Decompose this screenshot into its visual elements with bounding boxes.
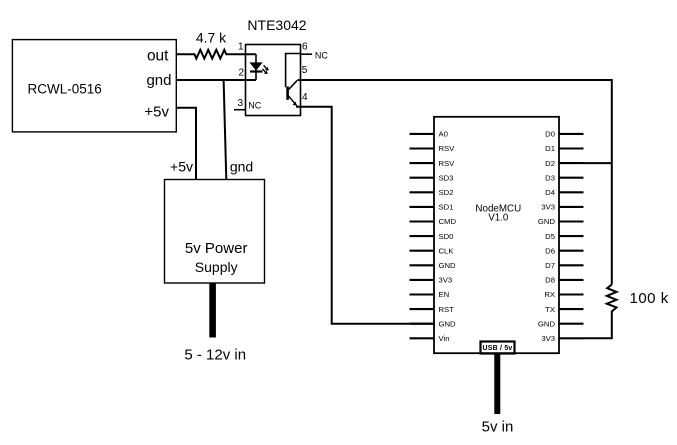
svg-text:CLK: CLK bbox=[439, 246, 455, 255]
svg-text:+5v: +5v bbox=[170, 159, 193, 175]
svg-text:D6: D6 bbox=[545, 246, 555, 255]
svg-text:SD0: SD0 bbox=[439, 232, 454, 241]
svg-text:6: 6 bbox=[302, 42, 308, 53]
svg-text:gnd: gnd bbox=[146, 72, 171, 89]
svg-text:RSV: RSV bbox=[439, 144, 456, 153]
svg-text:out: out bbox=[147, 48, 169, 65]
svg-text:100 k: 100 k bbox=[630, 290, 669, 307]
svg-text:4.7 k: 4.7 k bbox=[196, 30, 227, 46]
svg-text:GND: GND bbox=[439, 319, 457, 328]
svg-text:D3: D3 bbox=[545, 173, 555, 182]
svg-text:NC: NC bbox=[248, 100, 261, 110]
svg-text:5: 5 bbox=[302, 65, 308, 76]
svg-text:SD2: SD2 bbox=[439, 188, 454, 197]
svg-text:gnd: gnd bbox=[230, 159, 253, 175]
svg-text:3V3: 3V3 bbox=[541, 203, 555, 212]
svg-text:D7: D7 bbox=[545, 261, 555, 270]
svg-text:USB / 5v: USB / 5v bbox=[483, 345, 513, 352]
svg-text:GND: GND bbox=[538, 319, 556, 328]
svg-text:5v Power: 5v Power bbox=[185, 240, 248, 257]
svg-text:D2: D2 bbox=[545, 159, 555, 168]
svg-text:RSV: RSV bbox=[439, 159, 456, 168]
svg-text:EN: EN bbox=[439, 290, 450, 299]
svg-text:+5v: +5v bbox=[144, 103, 169, 120]
svg-text:D4: D4 bbox=[545, 188, 556, 197]
svg-text:2: 2 bbox=[238, 67, 244, 78]
svg-text:3V3: 3V3 bbox=[541, 334, 555, 343]
svg-text:V1.0: V1.0 bbox=[488, 213, 509, 224]
svg-text:GND: GND bbox=[538, 217, 556, 226]
svg-text:5v in: 5v in bbox=[482, 419, 514, 436]
svg-text:D0: D0 bbox=[545, 130, 555, 139]
svg-text:RX: RX bbox=[544, 290, 555, 299]
svg-text:CMD: CMD bbox=[439, 217, 457, 226]
svg-text:3V3: 3V3 bbox=[439, 276, 453, 285]
svg-text:A0: A0 bbox=[439, 130, 448, 139]
svg-text:SD1: SD1 bbox=[439, 203, 454, 212]
svg-text:D5: D5 bbox=[545, 232, 555, 241]
svg-text:NC: NC bbox=[315, 51, 328, 61]
svg-text:NTE3042: NTE3042 bbox=[247, 17, 306, 33]
svg-text:1: 1 bbox=[238, 41, 244, 52]
svg-text:RST: RST bbox=[439, 305, 455, 314]
svg-text:4: 4 bbox=[302, 92, 308, 103]
svg-text:Vin: Vin bbox=[439, 334, 450, 343]
svg-text:3: 3 bbox=[237, 98, 243, 109]
svg-text:Supply: Supply bbox=[195, 259, 238, 275]
svg-text:SD3: SD3 bbox=[439, 173, 454, 182]
svg-text:RCWL-0516: RCWL-0516 bbox=[28, 82, 102, 97]
svg-text:5 - 12v in: 5 - 12v in bbox=[184, 347, 246, 364]
svg-text:D1: D1 bbox=[545, 144, 555, 153]
svg-text:D8: D8 bbox=[545, 276, 555, 285]
svg-text:GND: GND bbox=[439, 261, 457, 270]
svg-text:TX: TX bbox=[545, 305, 555, 314]
